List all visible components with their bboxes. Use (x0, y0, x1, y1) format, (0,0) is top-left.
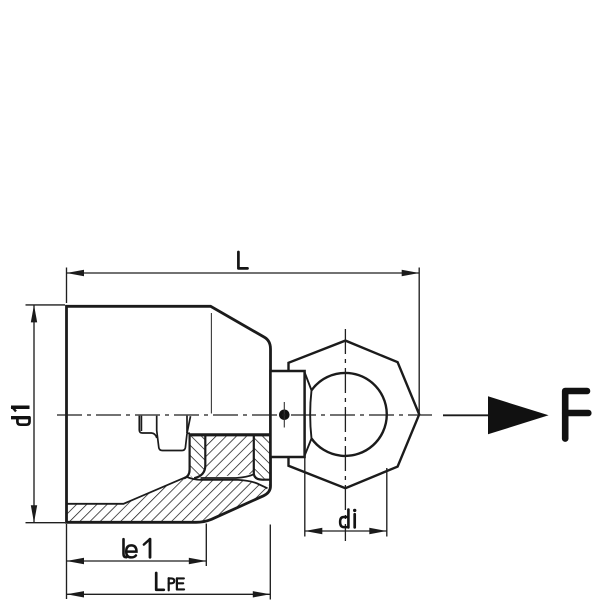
dimension d1 arrow bottom (31, 505, 37, 523)
dimension L extension left (66, 268, 68, 304)
insert pocket right wall line with hook (254, 434, 270, 480)
dimension le1 extension right (205, 524, 207, 567)
dimension L arrow right (402, 270, 420, 276)
dimension le1 arrow left (67, 558, 85, 564)
main horizontal centerline (57, 414, 432, 416)
pivot dot (279, 410, 290, 421)
dimension LPE arrow right (253, 591, 270, 597)
insert left wall band hatched (190, 434, 206, 478)
housing lower-section hatched area (67, 434, 270, 523)
force F arrowhead (488, 396, 549, 434)
neck cup face (271, 371, 305, 457)
clearance gap white channel (187, 474, 269, 488)
dimension L arrow left (67, 270, 85, 276)
dimension di extension left (304, 440, 306, 537)
dimension le1 left extension (body edge extended) (66, 524, 68, 599)
dimension LPE arrow left (67, 591, 85, 597)
label L (238, 252, 247, 268)
dimension di arrow right (369, 528, 387, 534)
dimension d1 extension bottom (26, 522, 66, 524)
dimension d1 line (33, 305, 35, 523)
label LPE (hand-drawn) (156, 573, 184, 590)
internal thread section below axis (139, 416, 190, 451)
dimension L extension right (418, 268, 420, 414)
force F line (443, 414, 488, 416)
dimension L line (67, 272, 420, 274)
cone tangent thin line (210, 313, 212, 414)
label le1 (hand-drawn) (124, 539, 151, 557)
dimension di arrow left (305, 528, 323, 534)
housing strip top and cone surface line (67, 477, 268, 504)
body outline (67, 306, 271, 522)
hatch top heavy line (189, 433, 270, 436)
dimension d1 extension top (26, 304, 66, 306)
label F strokes (565, 391, 588, 439)
pivot vertical centerline (283, 402, 285, 428)
octagon vertical centerline (344, 329, 346, 541)
insert pocket left wall line with hook (194, 434, 205, 478)
dimension d1 arrow top (31, 305, 37, 323)
cup lip edges (305, 372, 312, 455)
insert right wall band hatched (254, 434, 270, 479)
ball arc (312, 373, 387, 456)
label d1 (hand-drawn rotated glyphs) (11, 407, 30, 425)
dimension le1 arrow right (189, 558, 207, 564)
dimension le1 line (67, 560, 207, 562)
label di (hand-drawn) (340, 509, 356, 528)
dimension LPE extension right (269, 525, 271, 600)
insert middle bottom line (201, 474, 254, 478)
octagon ball retainer (289, 341, 420, 489)
dimension di line (305, 530, 387, 532)
dimension di extension right (386, 468, 388, 537)
dimension LPE line (67, 593, 271, 595)
housing bore wall line (184, 434, 190, 478)
